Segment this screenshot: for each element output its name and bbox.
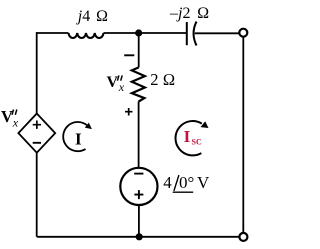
plus sign in diamond bbox=[33, 121, 41, 129]
mesh current I arrowhead bbox=[85, 123, 92, 130]
label Vx'' left bbox=[1, 107, 19, 130]
voltage source circle 4/0 V bbox=[120, 168, 157, 205]
mesh current Isc arc bbox=[176, 121, 202, 155]
svg-text:V: V bbox=[197, 173, 210, 192]
terminal bottom-right open circle bbox=[239, 233, 247, 241]
svg-text:j4 Ω: j4 Ω bbox=[76, 8, 108, 25]
svg-text:I: I bbox=[184, 127, 191, 146]
label Isc red bbox=[184, 127, 202, 147]
minus sign in diamond bbox=[33, 142, 41, 144]
svg-text:I: I bbox=[75, 130, 82, 149]
resistor 2 ohm zigzag bbox=[132, 67, 145, 101]
wire middle column between resistor and source bbox=[138, 102, 140, 168]
dependent source diamond Vx'' bbox=[18, 114, 55, 153]
wire left rail upper bbox=[36, 32, 38, 114]
wire middle column below source bbox=[138, 205, 140, 237]
svg-text:SC: SC bbox=[192, 138, 202, 147]
wire middle column top bbox=[138, 33, 140, 67]
svg-text:4: 4 bbox=[163, 173, 172, 192]
minus above resistor bbox=[124, 54, 134, 56]
svg-text:–j2 Ω: –j2 Ω bbox=[169, 5, 209, 22]
wire right rail bbox=[242, 37, 244, 233]
wire top-left horizontal bbox=[37, 32, 69, 34]
mesh current I arc bbox=[63, 122, 87, 151]
node bottom junction dot bbox=[136, 233, 143, 240]
svg-text:2 Ω: 2 Ω bbox=[150, 70, 175, 89]
terminal top-right open circle bbox=[239, 29, 247, 37]
svg-text:x: x bbox=[118, 80, 125, 94]
svg-text:V: V bbox=[1, 107, 13, 126]
capacitor -j2 ohm left plate bbox=[186, 22, 188, 45]
capacitor -j2 ohm curved plate bbox=[194, 22, 197, 46]
minus sign in source bbox=[134, 173, 143, 175]
label 4 angle 0 V bbox=[163, 173, 210, 192]
wire top-middle bbox=[104, 32, 187, 34]
svg-text:x: x bbox=[12, 116, 19, 130]
wire left rail lower bbox=[36, 152, 38, 237]
wire bottom rail bbox=[37, 236, 240, 238]
wire capacitor to terminal bbox=[195, 32, 240, 34]
inductor j4 ohm bbox=[69, 33, 104, 38]
mesh current Isc arrowhead bbox=[201, 121, 209, 128]
svg-text:V: V bbox=[107, 74, 119, 91]
node top junction dot bbox=[135, 29, 142, 36]
svg-text:0°: 0° bbox=[179, 173, 194, 192]
label Vx'' middle bbox=[107, 74, 125, 94]
plus below resistor bbox=[125, 108, 133, 116]
plus sign in source bbox=[134, 190, 143, 199]
